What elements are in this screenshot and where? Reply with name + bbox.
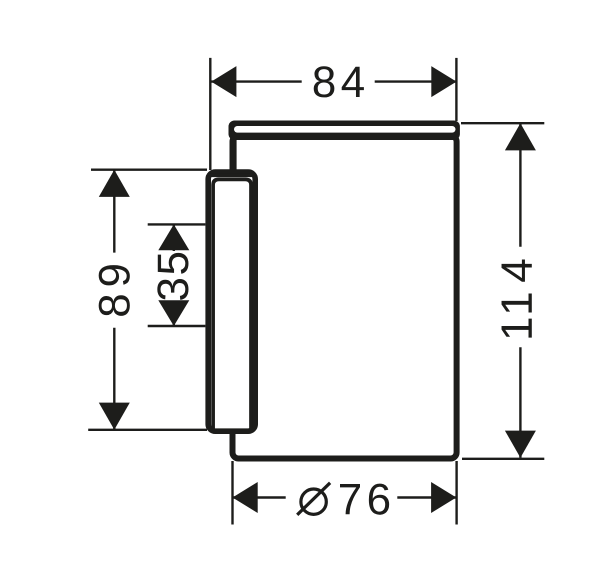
wall bracket top edge thickening: [210, 174, 253, 177]
dim Ø76: label diameter symbol circle: [301, 489, 326, 514]
dim 84: right arrow: [431, 66, 456, 97]
dim 89: dimension line top segment: [113, 170, 115, 253]
dim 84: digit 4: [342, 67, 364, 97]
dim 84: left extension line: [209, 58, 211, 170]
dim 89: top arrow: [99, 170, 130, 197]
dim 84: right extension line: [455, 58, 457, 121]
dim 84: left arrow: [211, 66, 236, 97]
dim 35: digit 3 (rotated): [157, 279, 188, 300]
dim 35: bottom extension line: [148, 325, 206, 327]
cup body left edge upper segment (thicker): [230, 138, 236, 170]
dim 114: digit 1 middle (rotated): [502, 294, 532, 313]
dim 89: digit 8 (rotated): [99, 295, 130, 316]
dim 35: top arrow (points up): [158, 224, 189, 250]
dim 84: dimension line right segment: [375, 80, 457, 82]
dim 35: dimension line: [173, 224, 175, 251]
dim 35: digit 5 (rotated): [158, 253, 189, 274]
dim Ø76: right extension line: [455, 461, 457, 525]
dim 114: top arrow: [505, 123, 536, 150]
dim 114: top extension line: [461, 122, 544, 124]
dim 89: bottom arrow: [99, 403, 130, 430]
dim Ø76: dimension line left segment: [233, 496, 286, 498]
dim Ø76: left arrow: [233, 482, 258, 513]
dim O76: digit 6: [369, 484, 389, 515]
dim 114: dimension line top segment: [519, 123, 521, 247]
top plate (lid): [229, 121, 460, 141]
dim 114: dimension line bottom segment: [519, 347, 521, 458]
dim 35: dimension line lower part: [173, 301, 175, 326]
dim 114: digit 1 lower (rotated): [502, 319, 532, 338]
dim 84: dimension line left segment: [211, 80, 302, 82]
dim 114: bottom arrow: [505, 431, 536, 458]
dim 89: bottom extension line: [88, 429, 207, 431]
dim 35: bottom arrow (points down): [158, 300, 189, 326]
top plate inner white slot: [234, 126, 456, 133]
dim 35: top extension line: [148, 223, 206, 225]
dim Ø76: left extension line: [231, 461, 233, 525]
wall bracket outer: [208, 172, 255, 431]
dim Ø76: label diameter symbol slash: [297, 483, 330, 515]
dim Ø76: right arrow: [431, 482, 456, 513]
cup body outline: [233, 136, 457, 459]
dim 89: digit 9 (rotated): [99, 265, 130, 285]
dim 114: bottom extension line: [462, 458, 544, 460]
dim Ø76: dimension line right segment: [397, 496, 456, 498]
dim 89: top extension line: [91, 168, 207, 170]
wall bracket inner line (U shape open at bottom): [213, 179, 251, 428]
dim 89: dimension line bottom segment: [113, 328, 115, 430]
dim O76: digit 7: [340, 484, 360, 514]
dim 84: digit 8: [314, 66, 335, 97]
dim 114: digit 4 (rotated): [502, 260, 532, 282]
